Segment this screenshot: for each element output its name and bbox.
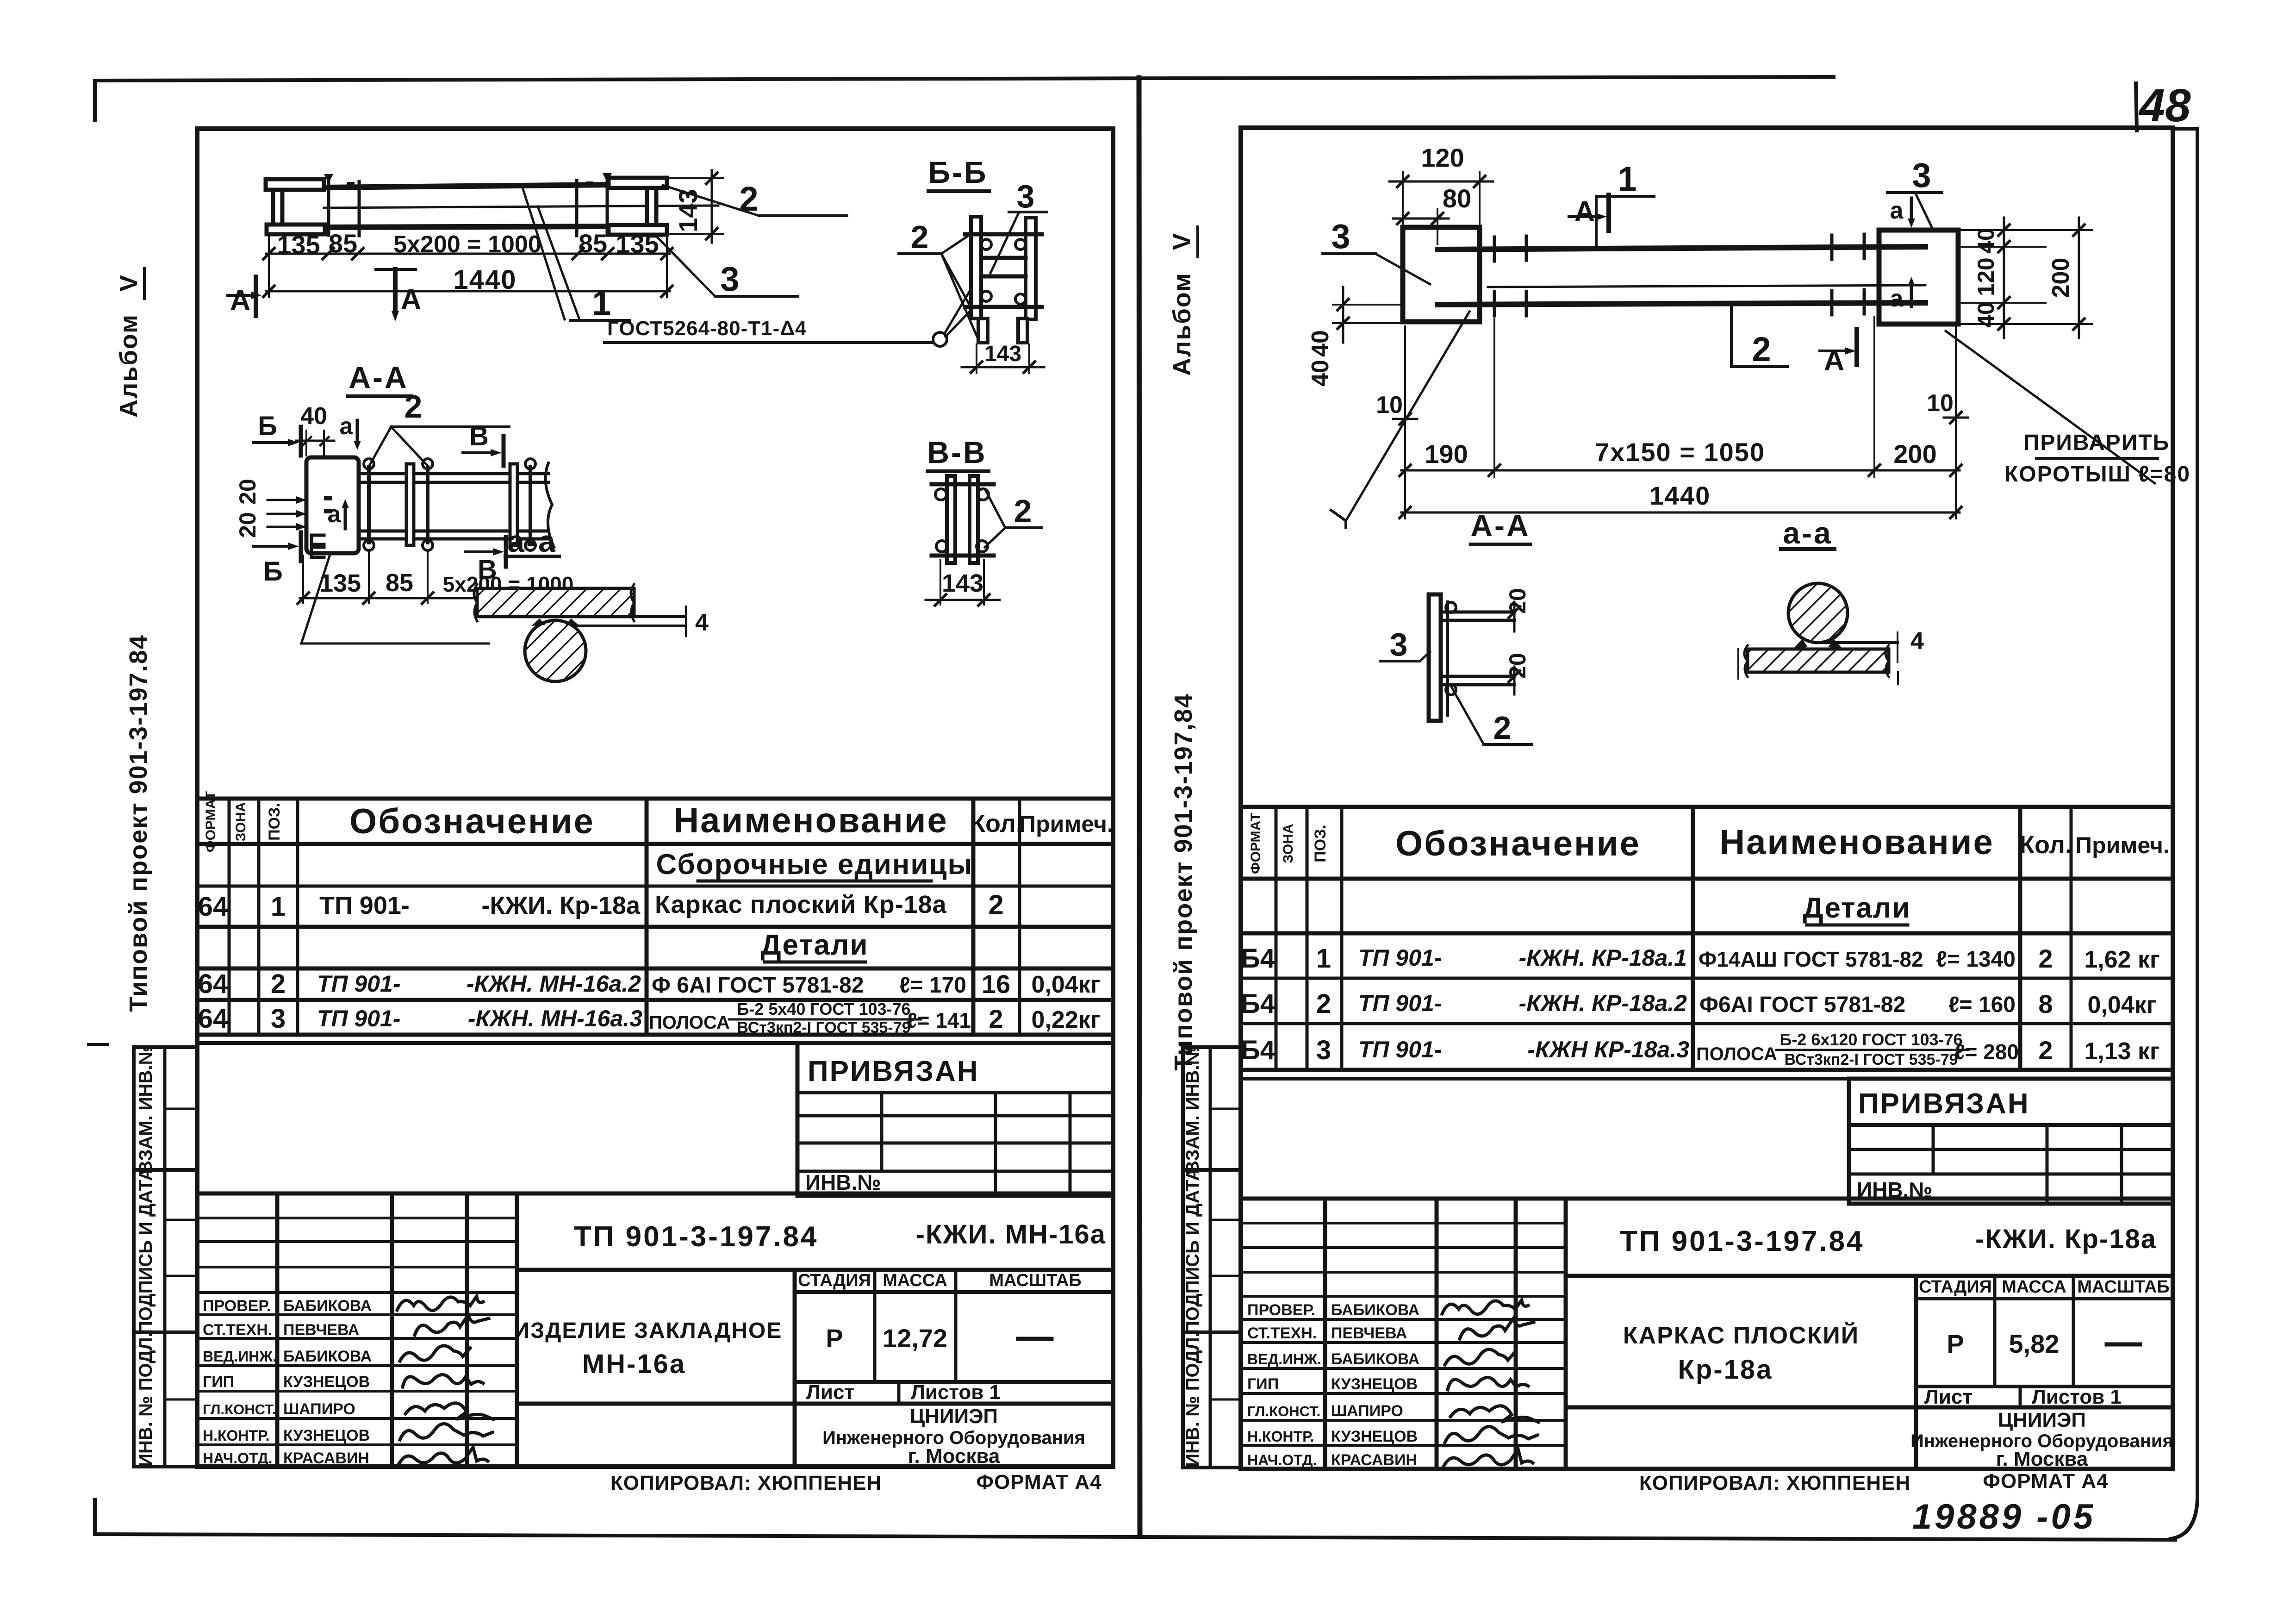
left B-B callout 3 <box>990 178 1047 273</box>
svg-text:V: V <box>1168 233 1196 250</box>
left table row 2 <box>198 969 1101 999</box>
svg-text:ЗОНА: ЗОНА <box>1281 824 1296 863</box>
svg-text:ТП 901-3-197.84: ТП 901-3-197.84 <box>574 1221 819 1253</box>
svg-text:г. Москва: г. Москва <box>1996 1448 2088 1470</box>
svg-text:ТП 901-: ТП 901- <box>317 971 400 997</box>
left plan dimension row 135 85 1000 <box>263 229 672 297</box>
left plan section mark A left <box>228 277 261 317</box>
svg-text:120: 120 <box>1973 257 1999 296</box>
left A-A mark a top <box>340 413 361 450</box>
right title doc number <box>1620 1224 2157 1257</box>
right pривязан block <box>1849 1079 2173 1204</box>
left plan callout 3 <box>655 235 797 298</box>
svg-text:Детали: Детали <box>1803 892 1911 924</box>
left title block names <box>283 1297 372 1467</box>
svg-text:200: 200 <box>2047 258 2074 298</box>
svg-text:Б: Б <box>263 556 283 587</box>
svg-text:ℓ= 170: ℓ= 170 <box>899 973 966 998</box>
svg-text:20: 20 <box>235 479 261 505</box>
svg-text:ГИП: ГИП <box>203 1373 234 1391</box>
svg-text:В: В <box>469 421 489 451</box>
sheet divider line <box>1139 78 1140 1536</box>
left plan dimension 1440 <box>263 265 672 297</box>
left plan dimension 143 <box>670 170 723 243</box>
svg-text:2: 2 <box>1752 330 1771 369</box>
left A-A section mark B top <box>254 411 301 456</box>
svg-text:а: а <box>1890 197 1904 224</box>
left A-A section mark V top <box>463 421 504 466</box>
svg-text:ЗОНА: ЗОНА <box>233 802 249 841</box>
svg-text:5,82: 5,82 <box>2009 1329 2060 1358</box>
svg-text:143: 143 <box>942 569 983 597</box>
svg-text:КУЗНЕЦОВ: КУЗНЕЦОВ <box>1331 1428 1418 1445</box>
right zone divider line <box>1241 1077 2173 1081</box>
svg-text:ТП 901-: ТП 901- <box>1358 1037 1442 1062</box>
svg-text:85: 85 <box>579 229 607 258</box>
svg-text:2: 2 <box>1014 493 1032 529</box>
svg-text:20: 20 <box>1505 653 1531 679</box>
svg-text:-КЖН. МН-16а.3: -КЖН. МН-16а.3 <box>468 1006 642 1031</box>
svg-text:ПОДПИСЬ И ДАТА: ПОДПИСЬ И ДАТА <box>136 1168 156 1334</box>
svg-text:40: 40 <box>1307 360 1334 387</box>
svg-text:64: 64 <box>198 892 228 922</box>
svg-text:1: 1 <box>592 284 611 322</box>
svg-text:Б4: Б4 <box>1241 1035 1275 1065</box>
svg-text:ПРИВЯЗАН: ПРИВЯЗАН <box>808 1056 979 1087</box>
right plan view right plate <box>1879 230 1958 324</box>
left A-A callout 2 <box>370 388 509 465</box>
left table row assembly units <box>656 849 973 881</box>
left A-A leader line <box>301 553 489 643</box>
left B-B weld note <box>604 289 971 346</box>
svg-text:Типовой проект 901-3-197,84: Типовой проект 901-3-197,84 <box>1170 693 1197 1071</box>
right stamp column <box>1182 1044 1241 1468</box>
svg-text:135: 135 <box>616 229 659 258</box>
left A-A bars <box>359 463 554 547</box>
svg-text:40: 40 <box>1973 302 1999 328</box>
svg-text:40: 40 <box>1973 228 1999 254</box>
svg-text:3: 3 <box>1017 178 1035 214</box>
svg-text:2: 2 <box>404 388 423 425</box>
svg-text:ПОЗ.: ПОЗ. <box>1312 824 1329 862</box>
svg-text:ПОДПИСЬ И ДАТА: ПОДПИСЬ И ДАТА <box>1182 1168 1203 1334</box>
left table row details header <box>761 929 869 962</box>
left stamp column <box>134 1044 197 1467</box>
svg-text:Лист: Лист <box>1924 1386 1972 1408</box>
svg-text:Примеч.: Примеч. <box>2075 832 2170 858</box>
svg-text:2: 2 <box>911 219 929 255</box>
svg-text:3: 3 <box>1331 217 1350 256</box>
svg-text:2: 2 <box>1316 989 1331 1019</box>
right table row 2 <box>1241 989 2156 1019</box>
svg-text:ЦНИИЭП: ЦНИИЭП <box>910 1405 998 1428</box>
svg-text:ТП 901-: ТП 901- <box>319 892 410 919</box>
left title stage mass scale <box>798 1271 1082 1353</box>
left A-A section mark B bottom <box>254 532 301 587</box>
svg-text:ВСт3кп2-I ГОСТ 535-79: ВСт3кп2-I ГОСТ 535-79 <box>1784 1051 1958 1068</box>
svg-text:64: 64 <box>198 969 228 999</box>
svg-text:190: 190 <box>1425 439 1468 468</box>
svg-text:БАБИКОВА: БАБИКОВА <box>283 1297 372 1315</box>
svg-text:ВСт3кп2-I ГОСТ 535-79: ВСт3кп2-I ГОСТ 535-79 <box>737 1019 910 1037</box>
svg-text:2: 2 <box>2038 944 2053 973</box>
svg-text:ПРОВЕР.: ПРОВЕР. <box>1247 1301 1315 1319</box>
right title sheet row <box>1924 1386 2122 1408</box>
left table row 3 <box>198 999 1101 1037</box>
left A-A section mark V bottom <box>465 537 506 585</box>
svg-text:20: 20 <box>235 512 261 538</box>
right plan section mark A top <box>1569 195 1609 231</box>
svg-text:Наименование: Наименование <box>673 801 948 840</box>
right detail a-a plate <box>1738 645 1898 684</box>
svg-text:а-а: а-а <box>507 524 557 558</box>
svg-text:Ф6АI ГОСТ 5781-82: Ф6АI ГОСТ 5781-82 <box>1699 993 1905 1017</box>
left section V-V header <box>927 435 989 471</box>
svg-text:10: 10 <box>1376 392 1403 418</box>
svg-text:-КЖИ. МН-16а: -КЖИ. МН-16а <box>916 1219 1106 1249</box>
svg-text:ТП 901-3-197.84: ТП 901-3-197.84 <box>1620 1225 1865 1257</box>
svg-text:Наименование: Наименование <box>1719 823 1994 862</box>
right plan long leader <box>1331 312 1469 528</box>
right plan dims 40 40 left <box>1307 287 1400 387</box>
left plan callout 2 <box>663 180 847 218</box>
right title block signatures <box>1442 1300 1538 1466</box>
svg-text:ТП 901-: ТП 901- <box>1358 990 1442 1016</box>
svg-text:2: 2 <box>1493 710 1512 746</box>
svg-text:7х150 = 1050: 7х150 = 1050 <box>1595 437 1765 467</box>
right parts table grid <box>1241 807 2173 1070</box>
svg-text:МАСШТАБ: МАСШТАБ <box>2077 1277 2169 1297</box>
svg-text:5х200 = 1000: 5х200 = 1000 <box>393 231 541 258</box>
left A-A mark a bottom <box>328 499 349 529</box>
right plan callout 3 right <box>1887 156 1942 230</box>
right plan dim 10 left <box>1376 392 1417 425</box>
right plan callout 1 <box>1596 160 1654 247</box>
right margin project label <box>1170 693 1197 1071</box>
svg-text:ℓ= 1340: ℓ= 1340 <box>1936 947 2016 972</box>
right A-A callout 2 <box>1450 685 1532 746</box>
svg-text:а: а <box>340 413 354 440</box>
left margin album label <box>115 269 144 418</box>
svg-text:ℓ= 160: ℓ= 160 <box>1948 993 2016 1017</box>
right plan view left plate <box>1403 227 1480 322</box>
svg-text:48: 48 <box>2138 80 2191 131</box>
svg-text:ВЗАМ. ИНВ.№: ВЗАМ. ИНВ.№ <box>1182 1044 1203 1174</box>
svg-text:А: А <box>230 285 251 317</box>
svg-text:4: 4 <box>695 609 709 636</box>
svg-text:КУЗНЕЦОВ: КУЗНЕЦОВ <box>1331 1375 1418 1393</box>
svg-text:Обозначение: Обозначение <box>1395 824 1641 863</box>
svg-text:Примеч.: Примеч. <box>1019 811 1114 837</box>
svg-text:ГЛ.КОНСТ.: ГЛ.КОНСТ. <box>1247 1403 1320 1419</box>
svg-text:1,13 кг: 1,13 кг <box>2084 1038 2159 1065</box>
svg-text:Листов 1: Листов 1 <box>911 1381 1001 1404</box>
left title sheet row <box>806 1381 1001 1404</box>
svg-text:120: 120 <box>1421 143 1464 172</box>
left V-V dim 143 <box>926 560 1000 606</box>
left A-A dim 40 top <box>296 403 334 456</box>
svg-text:Н.КОНТР.: Н.КОНТР. <box>203 1427 270 1444</box>
svg-text:ГИП: ГИП <box>1247 1375 1279 1393</box>
svg-text:Каркас плоский Кр-18а: Каркас плоский Кр-18а <box>655 891 947 918</box>
svg-text:г. Москва: г. Москва <box>908 1445 1000 1468</box>
right sheet frame <box>1241 128 2173 1469</box>
svg-text:135: 135 <box>319 569 361 597</box>
svg-text:-КЖН КР-18а.3: -КЖН КР-18а.3 <box>1527 1037 1689 1062</box>
svg-text:ФОРМАТ: ФОРМАТ <box>1248 813 1263 874</box>
right table details header <box>1803 892 1911 925</box>
svg-text:БАБИКОВА: БАБИКОВА <box>283 1348 372 1365</box>
right table row 1 <box>1241 943 2160 974</box>
svg-text:ИЗДЕЛИЕ ЗАКЛАДНОЕ: ИЗДЕЛИЕ ЗАКЛАДНОЕ <box>514 1318 783 1343</box>
svg-text:1,62 кг: 1,62 кг <box>2084 946 2159 973</box>
svg-text:-КЖИ. Кр-18а: -КЖИ. Кр-18а <box>481 892 641 919</box>
left plan section mark A centre <box>376 269 421 321</box>
svg-text:3: 3 <box>720 260 739 298</box>
left title block grid <box>197 1193 1113 1467</box>
right plan section mark A bottom <box>1820 329 1857 377</box>
svg-text:ПОЛОСА: ПОЛОСА <box>649 1012 730 1033</box>
svg-text:МАСШТАБ: МАСШТАБ <box>989 1271 1081 1290</box>
svg-text:а: а <box>328 501 342 528</box>
left A-A pins <box>364 459 535 550</box>
left plan right channel <box>609 178 667 235</box>
svg-text:ШАПИРО: ШАПИРО <box>1331 1402 1403 1420</box>
svg-text:0,22кг: 0,22кг <box>1032 1006 1101 1033</box>
svg-text:НАЧ.ОТД.: НАЧ.ОТД. <box>203 1450 272 1467</box>
svg-text:143: 143 <box>984 342 1021 366</box>
left detail a-a header <box>505 524 559 558</box>
svg-text:200: 200 <box>1893 439 1936 468</box>
svg-text:КУЗНЕЦОВ: КУЗНЕЦОВ <box>283 1427 370 1444</box>
right plan right side dims <box>1961 218 2092 338</box>
left plan left channel <box>266 179 325 234</box>
svg-text:Б4: Б4 <box>1241 943 1275 974</box>
svg-text:КОРОТЫШ ℓ=80: КОРОТЫШ ℓ=80 <box>2004 462 2190 487</box>
svg-text:20: 20 <box>1505 588 1531 614</box>
svg-text:3: 3 <box>1316 1035 1331 1065</box>
right title item name <box>1623 1322 1859 1385</box>
right plan dim 80 <box>1393 184 1471 244</box>
svg-text:1: 1 <box>1618 160 1636 198</box>
svg-text:135: 135 <box>277 230 320 259</box>
svg-text:ПРОВЕР.: ПРОВЕР. <box>203 1297 271 1315</box>
svg-text:1: 1 <box>271 892 286 922</box>
svg-text:ℓ= 280: ℓ= 280 <box>1954 1040 2019 1064</box>
right title block role labels <box>1247 1301 1321 1468</box>
svg-text:85: 85 <box>329 229 357 258</box>
svg-text:ФОРМАТ А4: ФОРМАТ А4 <box>976 1471 1101 1493</box>
svg-text:ГЛ.КОНСТ.: ГЛ.КОНСТ. <box>203 1401 276 1418</box>
left A-A bottom dims <box>298 552 573 604</box>
svg-text:Ф 6АI ГОСТ 5781-82: Ф 6АI ГОСТ 5781-82 <box>652 973 864 998</box>
svg-text:Кол.: Кол. <box>970 810 1023 837</box>
svg-text:БАБИКОВА: БАБИКОВА <box>1331 1350 1419 1368</box>
right plan bottom dims row <box>1400 317 1961 518</box>
svg-text:V: V <box>115 275 143 292</box>
svg-text:МАССА: МАССА <box>883 1271 947 1290</box>
right A-A rods <box>1444 588 1531 695</box>
left parts table grid <box>197 799 1113 1035</box>
left section B-B anchors <box>965 234 1042 307</box>
right plan mark a bottom <box>1890 277 1915 312</box>
right detail a-a strip <box>1814 628 1924 662</box>
right plan callout 3 left <box>1323 217 1430 284</box>
svg-text:СТАДИЯ: СТАДИЯ <box>1919 1277 1992 1297</box>
left table row 1 <box>198 889 1004 922</box>
svg-text:ПЕВЧЕВА: ПЕВЧЕВА <box>283 1321 359 1339</box>
svg-text:Листов 1: Листов 1 <box>2032 1386 2122 1408</box>
svg-text:ВЕД.ИНЖ.: ВЕД.ИНЖ. <box>203 1348 277 1365</box>
left title doc number <box>574 1219 1106 1253</box>
document number 19889-05 handwritten <box>1912 1497 2096 1537</box>
svg-text:В-В: В-В <box>927 435 987 469</box>
svg-text:Кр-18а: Кр-18а <box>1678 1355 1773 1385</box>
right table header text <box>1248 813 2170 874</box>
svg-text:Альбом: Альбом <box>1168 272 1196 376</box>
svg-text:16: 16 <box>982 969 1010 999</box>
svg-text:А: А <box>401 284 422 316</box>
svg-text:ПРИВАРИТЬ: ПРИВАРИТЬ <box>2023 431 2170 455</box>
left copied by line <box>610 1471 1102 1494</box>
left zone divider line <box>197 1041 1113 1045</box>
svg-text:а-а: а-а <box>1783 516 1832 550</box>
svg-text:ПРИВЯЗАН: ПРИВЯЗАН <box>1858 1088 2030 1120</box>
svg-text:-КЖН. КР-18а.2: -КЖН. КР-18а.2 <box>1518 990 1687 1016</box>
left title item name <box>514 1318 783 1379</box>
svg-text:2: 2 <box>2038 1036 2053 1065</box>
svg-text:3: 3 <box>271 1004 286 1034</box>
left B-B callout 2 <box>899 219 978 340</box>
svg-text:ШАПИРО: ШАПИРО <box>283 1400 355 1418</box>
svg-text:2: 2 <box>989 1004 1003 1033</box>
left B-B dimension 143 <box>962 342 1044 373</box>
svg-text:2: 2 <box>988 889 1003 920</box>
svg-text:-КЖИ. Кр-18а: -КЖИ. Кр-18а <box>1975 1224 2157 1254</box>
svg-text:ИНВ. № ПОДЛ.: ИНВ. № ПОДЛ. <box>136 1332 156 1467</box>
left pривязан block <box>797 1043 1113 1196</box>
svg-text:Б-Б: Б-Б <box>928 155 988 189</box>
svg-text:19889 -05: 19889 -05 <box>1912 1497 2096 1537</box>
svg-text:Альбом: Альбом <box>115 314 143 418</box>
right plan callout 2 <box>1731 306 1787 369</box>
svg-text:10: 10 <box>1927 390 1954 417</box>
right plan dim 10 right <box>1927 390 1968 423</box>
right table row 3 <box>1241 1030 2160 1068</box>
svg-text:Сборочные единицы: Сборочные единицы <box>656 849 973 881</box>
svg-text:3: 3 <box>1390 626 1408 662</box>
svg-text:1440: 1440 <box>453 265 516 295</box>
svg-text:ПОЗ.: ПОЗ. <box>266 803 283 841</box>
left detail a-a bar circle <box>525 618 586 681</box>
left sheet frame <box>197 129 1113 1467</box>
svg-text:ВЕД.ИНЖ.: ВЕД.ИНЖ. <box>1247 1351 1321 1368</box>
right copied by line <box>1639 1470 2109 1494</box>
left A-A end plate <box>306 457 359 557</box>
svg-text:1: 1 <box>1316 943 1331 974</box>
left table header text <box>203 791 1114 852</box>
svg-text:ИНВ.№: ИНВ.№ <box>805 1170 881 1194</box>
right margin album label <box>1168 227 1198 376</box>
page right border <box>2171 129 2197 1539</box>
svg-text:2: 2 <box>271 969 286 999</box>
svg-text:ФОРМАТ: ФОРМАТ <box>203 791 218 852</box>
svg-text:Детали: Детали <box>761 929 869 961</box>
svg-text:Б: Б <box>258 411 277 441</box>
svg-text:Р: Р <box>1947 1329 1964 1358</box>
svg-text:а: а <box>1890 285 1904 312</box>
svg-text:ТП 901-: ТП 901- <box>317 1006 400 1031</box>
right plan view rods <box>1437 247 1925 305</box>
svg-text:0,04кг: 0,04кг <box>1032 971 1101 998</box>
right A-A plate <box>1429 594 1448 721</box>
svg-text:КОПИРОВАЛ: ХЮППЕНЕН: КОПИРОВАЛ: ХЮППЕНЕН <box>1639 1472 1910 1494</box>
svg-text:ТП 901-: ТП 901- <box>1358 945 1442 971</box>
right detail a-a circle <box>1788 583 1848 648</box>
svg-text:КРАСАВИН: КРАСАВИН <box>283 1449 369 1467</box>
left section A-A header <box>348 360 411 396</box>
svg-text:ℓ= 141: ℓ= 141 <box>907 1008 971 1032</box>
right plan weld note <box>1946 331 2190 487</box>
svg-text:ЦНИИЭП: ЦНИИЭП <box>1998 1409 2086 1431</box>
svg-text:8: 8 <box>2038 989 2053 1018</box>
svg-text:ИНВ. № ПОДЛ.: ИНВ. № ПОДЛ. <box>1182 1332 1203 1467</box>
svg-text:ПЕВЧЕВА: ПЕВЧЕВА <box>1331 1324 1407 1342</box>
svg-text:Н.КОНТР.: Н.КОНТР. <box>1247 1428 1314 1445</box>
svg-text:40: 40 <box>1307 330 1334 357</box>
right title block names <box>1331 1301 1419 1469</box>
svg-text:-КЖН. МН-16а.2: -КЖН. МН-16а.2 <box>467 971 641 997</box>
svg-text:Б-2 5х40 ГОСТ 103-76: Б-2 5х40 ГОСТ 103-76 <box>737 999 910 1018</box>
svg-text:Типовой проект 901-3-197.84: Типовой проект 901-3-197.84 <box>124 634 152 1012</box>
page top border line <box>95 77 1834 120</box>
left plan anchor pins <box>324 173 612 236</box>
left detail a-a strip <box>574 606 709 636</box>
svg-text:ПОЛОСА: ПОЛОСА <box>1696 1044 1777 1064</box>
svg-text:А-А: А-А <box>348 360 408 394</box>
left detail a-a plate <box>474 584 634 621</box>
svg-text:КАРКАС ПЛОСКИЙ: КАРКАС ПЛОСКИЙ <box>1623 1322 1859 1349</box>
left margin project label <box>124 634 152 1012</box>
svg-text:КОПИРОВАЛ: ХЮППЕНЕН: КОПИРОВАЛ: ХЮППЕНЕН <box>610 1472 882 1494</box>
right detail a-a header <box>1781 516 1835 550</box>
right A-A callout 3 <box>1380 626 1430 662</box>
svg-text:БАБИКОВА: БАБИКОВА <box>1331 1301 1419 1319</box>
svg-text:85: 85 <box>386 569 413 597</box>
svg-text:Кол.: Кол. <box>2019 831 2072 859</box>
right plan dim 1440 <box>1400 481 1961 518</box>
right section A-A header <box>1470 508 1530 544</box>
svg-text:Б4: Б4 <box>1241 989 1275 1019</box>
svg-text:3: 3 <box>1912 156 1931 194</box>
svg-text:ГОСТ5264-80-Т1-Δ4: ГОСТ5264-80-Т1-Δ4 <box>607 317 807 340</box>
svg-text:1440: 1440 <box>1649 481 1711 510</box>
left plan callout 1 <box>522 186 629 322</box>
svg-text:МН-16а: МН-16а <box>582 1349 686 1379</box>
left V-V callout 2 <box>985 491 1041 547</box>
svg-text:Обозначение: Обозначение <box>349 802 595 841</box>
right plan cross ticks <box>1494 234 1864 316</box>
left A-A dims 20 20 <box>235 479 306 538</box>
svg-text:КУЗНЕЦОВ: КУЗНЕЦОВ <box>283 1373 370 1391</box>
svg-text:40: 40 <box>300 403 327 430</box>
left section B-B header <box>928 155 989 191</box>
svg-text:Р: Р <box>826 1324 843 1353</box>
right plan dim 120 <box>1389 143 1493 224</box>
left section V-V frame <box>932 476 994 563</box>
svg-text:64: 64 <box>198 1004 228 1034</box>
right title org <box>1910 1409 2173 1470</box>
